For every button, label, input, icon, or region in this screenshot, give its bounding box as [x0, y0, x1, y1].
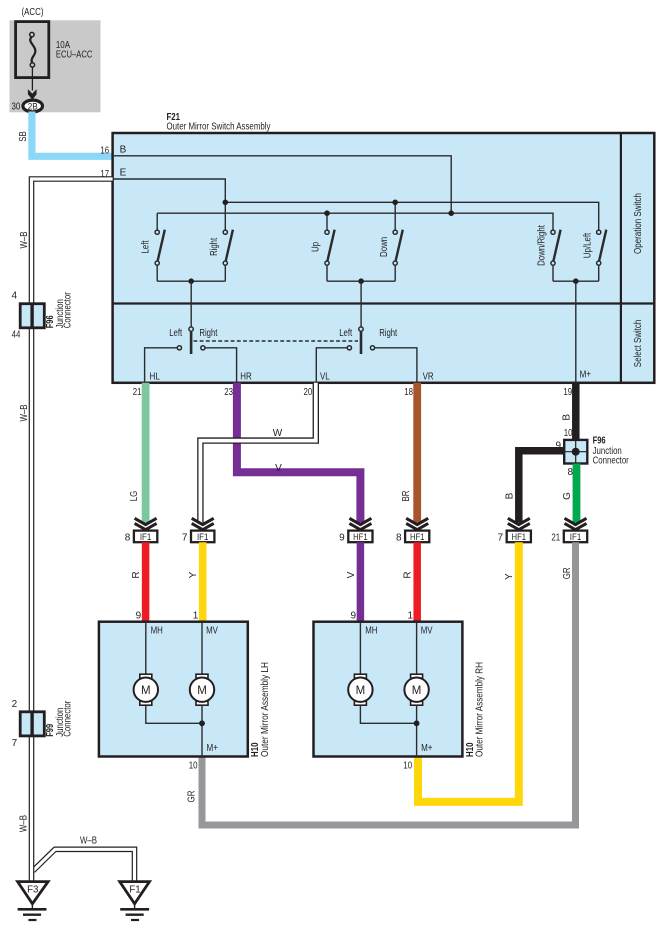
node E junction dot [223, 200, 229, 206]
connector arrow HF1-9 [349, 518, 371, 529]
label Up/Left [582, 233, 593, 259]
wire R (LH MH) [142, 542, 150, 622]
connector IF1-8 [134, 531, 157, 543]
pin 8 (F96) [568, 467, 574, 478]
svg-text:Outer Mirror Assembly LH: Outer Mirror Assembly LH [260, 662, 271, 757]
ground F3 [18, 882, 48, 920]
svg-text:1: 1 [193, 611, 199, 622]
label MV (RH) [421, 626, 433, 637]
pin 7 (IF1) [182, 532, 188, 543]
svg-text:B: B [120, 144, 127, 155]
wire to select switch 1 [190, 281, 192, 327]
label Down/Right [537, 225, 548, 266]
svg-text:2B: 2B [28, 101, 38, 112]
label Connector (F99) [63, 700, 74, 737]
svg-text:21: 21 [133, 387, 142, 398]
pin 10 (F96) [564, 428, 573, 439]
label Left [141, 240, 152, 253]
connector HF1-9 [348, 531, 372, 543]
svg-text:19: 19 [563, 387, 572, 398]
svg-text:M+: M+ [207, 743, 219, 754]
label R (RH) [403, 571, 414, 578]
switch Down/Right [551, 230, 561, 282]
outer mirror switch assembly box F21 [113, 133, 655, 383]
wire W-B branch to F1 [33, 849, 135, 881]
fuse box [16, 22, 49, 78]
svg-text:VR: VR [423, 371, 434, 382]
svg-text:Up/Left: Up/Left [582, 233, 593, 259]
label M+ (LH) [207, 743, 219, 754]
fuse block background [10, 20, 101, 112]
pin 19 [563, 387, 572, 398]
pin 9 (LH) [136, 611, 142, 622]
svg-text:7: 7 [182, 532, 188, 543]
label W-B (branch) [80, 836, 97, 847]
connector HF1-7 [507, 531, 531, 543]
label GR (IF1-21) [562, 567, 573, 579]
pin 8 (IF1) [125, 532, 131, 543]
label Left (select 2) [339, 328, 352, 339]
junction connector F96 left [20, 304, 44, 328]
pin 17 [100, 169, 109, 180]
connector HF1-8 [405, 531, 429, 543]
label Junction (F99) [55, 708, 66, 737]
svg-text:IF1: IF1 [197, 532, 209, 542]
wire B bus [113, 156, 452, 213]
wire lower bus [157, 213, 553, 230]
node B label [120, 144, 127, 155]
wire W-B main (E to ground) [32, 179, 113, 881]
wire Up switch feed [326, 213, 328, 230]
label Junction [593, 446, 622, 457]
label HR [240, 371, 252, 382]
svg-text:Y: Y [504, 573, 515, 580]
wire W (white) [200, 383, 315, 523]
wire B to HF1-7 [519, 451, 564, 523]
label F96 (left) [45, 315, 56, 328]
node Down junction dot [392, 200, 398, 206]
svg-text:V: V [275, 463, 282, 474]
svg-text:Connector: Connector [63, 700, 74, 737]
label R (LH) [131, 571, 142, 578]
wire R (RH MV) [413, 542, 421, 622]
label Junction (left F96) [55, 299, 66, 328]
wire Y (HF1-7 to RH M+) [418, 542, 519, 802]
connector arrow HF1-8 [406, 518, 428, 529]
svg-text:Left: Left [339, 328, 352, 339]
junction connector F99 [20, 712, 44, 736]
svg-text:Down/Right: Down/Right [537, 225, 548, 266]
label Right [209, 238, 220, 256]
wire HL [145, 348, 178, 383]
node pair2 dot [358, 278, 364, 284]
label W-B (middle) [19, 404, 30, 421]
label F99 [45, 723, 56, 736]
svg-text:B: B [504, 492, 515, 499]
label VR [423, 371, 434, 382]
wire VL [316, 348, 347, 383]
node M+ dot (RH) [414, 720, 420, 726]
label LG [129, 491, 140, 502]
svg-text:Operation Switch: Operation Switch [633, 193, 644, 254]
svg-text:R: R [131, 571, 142, 578]
svg-text:W–B: W–B [19, 815, 30, 832]
label F21 [167, 112, 181, 123]
label Select Switch [633, 320, 644, 367]
pin 1 (RH) [408, 611, 414, 622]
svg-text:8: 8 [125, 532, 131, 543]
pin 9 (F96) [555, 440, 561, 451]
svg-text:HF1: HF1 [512, 532, 527, 542]
svg-text:M: M [412, 685, 422, 697]
label VL [320, 371, 330, 382]
svg-text:W–B: W–B [19, 231, 30, 248]
pin 7 (HF1) [498, 532, 504, 543]
label GR (LH M+) [186, 791, 197, 803]
wire Left switch feed [156, 213, 158, 230]
svg-text:8: 8 [396, 532, 402, 543]
connector oval 2B [23, 100, 43, 112]
label ECU-ACC [56, 50, 93, 61]
pin 21 [133, 387, 142, 398]
svg-text:M: M [356, 685, 366, 697]
svg-text:BR: BR [401, 491, 412, 502]
svg-text:W: W [273, 428, 283, 439]
wire B (black, M+) [572, 383, 580, 441]
label Y (HF1-7) [504, 573, 515, 580]
svg-text:7: 7 [498, 532, 504, 543]
svg-text:Select Switch: Select Switch [633, 320, 644, 367]
label W-B (upper) [19, 231, 30, 248]
label G [562, 492, 573, 500]
label M+ [580, 370, 592, 381]
svg-text:9: 9 [136, 611, 142, 622]
node M+ dot (LH) [199, 720, 205, 726]
label BR [401, 491, 412, 502]
select switch 1 [177, 327, 205, 354]
svg-text:Left: Left [169, 328, 182, 339]
svg-text:Right: Right [209, 238, 220, 256]
label MH (RH) [365, 626, 377, 637]
svg-text:4: 4 [11, 290, 17, 301]
svg-text:Connector: Connector [593, 456, 630, 467]
arrowhead into 2B [28, 89, 37, 100]
outer mirror assembly RH box [314, 622, 463, 757]
wire fuse to 2B [31, 67, 33, 90]
node Up junction dot [324, 210, 330, 216]
label Connector [593, 456, 630, 467]
svg-text:10: 10 [564, 428, 573, 439]
label 10A [56, 40, 70, 51]
label HL [150, 371, 161, 382]
pin 7 (F99) [12, 738, 18, 749]
svg-text:10: 10 [189, 761, 198, 772]
label V [275, 463, 282, 474]
svg-text:HR: HR [240, 371, 252, 382]
node E label [120, 168, 127, 179]
svg-text:7: 7 [12, 738, 18, 749]
wire MV to motor (RH) [416, 622, 418, 675]
select switch 2 [347, 327, 374, 354]
svg-text:IF1: IF1 [140, 532, 152, 542]
wire BR (brown) [413, 383, 421, 523]
svg-text:Right: Right [379, 328, 397, 339]
wire pair bottom Left/Right [157, 280, 225, 282]
wire upper bus [225, 202, 598, 230]
svg-text:20: 20 [304, 387, 313, 398]
svg-text:18: 18 [404, 387, 413, 398]
wire V (violet) [237, 383, 361, 523]
label B (HF1-7) [504, 492, 515, 499]
wire V (RH MH) [357, 542, 365, 622]
svg-text:MV: MV [206, 626, 218, 637]
pin 10 (LH) [189, 761, 198, 772]
svg-text:M+: M+ [580, 370, 592, 381]
wire pair bottom Down/Right Up/Left [553, 280, 599, 282]
label F96 [593, 436, 606, 447]
label H10 (RH) [465, 742, 476, 757]
wire E bus [113, 179, 226, 202]
label (ACC) [22, 6, 44, 18]
svg-text:M+: M+ [421, 743, 433, 754]
label H10 (LH) [250, 742, 261, 757]
motor M vertical (LH) [190, 674, 214, 705]
svg-text:16: 16 [100, 146, 109, 157]
label Outer Mirror Assembly RH [474, 662, 485, 757]
svg-text:MH: MH [151, 626, 163, 637]
svg-text:10: 10 [403, 761, 412, 772]
label Operation Switch [633, 193, 644, 254]
motor M horizontal (LH) [134, 674, 158, 705]
wire pair bottom Up/Down [327, 280, 395, 282]
svg-text:MV: MV [421, 626, 433, 637]
svg-text:30: 30 [12, 101, 21, 112]
motor M horizontal (RH) [348, 674, 372, 705]
svg-text:SB: SB [18, 131, 29, 142]
svg-text:Outer Mirror Switch Assembly: Outer Mirror Switch Assembly [167, 122, 271, 133]
wire SB (light blue) [32, 112, 113, 157]
connector arrow IF1-8 [135, 518, 157, 529]
junction connector F96 right [564, 440, 587, 464]
ground F1 [120, 882, 150, 920]
svg-text:W–B: W–B [80, 836, 97, 847]
label W [273, 428, 283, 439]
wire GR (IF1-21 to LH M+) [202, 542, 576, 825]
wire MV motor down (LH) [201, 705, 203, 756]
svg-text:Connector: Connector [63, 292, 74, 329]
wire MV to motor (LH) [201, 622, 203, 675]
svg-text:V: V [346, 571, 357, 578]
mechanical link dashed [194, 340, 359, 342]
label Down [379, 237, 390, 257]
connector arrow HF1-7 [508, 518, 530, 529]
svg-text:E: E [120, 168, 127, 179]
wire MH to motor (LH) [145, 622, 147, 675]
wire to select switch 2 [360, 281, 362, 327]
node pair3 dot [573, 278, 579, 284]
wire G (green) [573, 464, 581, 523]
label SB [18, 131, 29, 142]
wire HR [205, 348, 237, 383]
pin 16 [100, 146, 109, 157]
label V (RH) [346, 571, 357, 578]
svg-text:B: B [561, 414, 572, 421]
pin 9 (HF1) [339, 532, 345, 543]
svg-text:W–B: W–B [19, 404, 30, 421]
svg-text:MH: MH [365, 626, 377, 637]
label Up [311, 242, 322, 252]
svg-text:HF1: HF1 [353, 532, 368, 542]
pin 4 (F96 left) [11, 290, 17, 301]
pin 10 (RH) [403, 761, 412, 772]
svg-text:G: G [562, 492, 573, 500]
svg-text:Down: Down [379, 237, 390, 257]
outer mirror assembly LH box [99, 622, 248, 757]
wire Y (LH MV) [199, 542, 207, 622]
label Outer Mirror Assembly LH [260, 662, 271, 757]
svg-text:9: 9 [339, 532, 345, 543]
switch Right [223, 230, 233, 282]
connector arrow IF1-21 [565, 518, 587, 529]
svg-text:1: 1 [408, 611, 414, 622]
pin 20 [304, 387, 313, 398]
wire MH to motor (RH) [359, 622, 361, 675]
label Right (select 2) [379, 328, 397, 339]
svg-text:44: 44 [12, 330, 21, 341]
svg-text:M: M [141, 685, 151, 697]
pin 18 [404, 387, 413, 398]
label W-B (lower) [19, 815, 30, 832]
svg-text:LG: LG [129, 491, 140, 502]
node B junction dot [448, 210, 454, 216]
wire MV motor down (RH) [416, 705, 418, 756]
svg-text:VL: VL [320, 371, 330, 382]
label MH (LH) [151, 626, 163, 637]
svg-text:GR: GR [186, 791, 197, 803]
pin 30 [12, 101, 21, 112]
switch Up [325, 230, 335, 282]
svg-text:HL: HL [150, 371, 161, 382]
svg-text:Right: Right [199, 328, 217, 339]
motor M vertical (RH) [404, 674, 428, 705]
label M+ (RH) [421, 743, 433, 754]
label Y (LH) [188, 571, 199, 578]
connector arrow IF1-7 [192, 518, 214, 529]
connector IF1-21 [564, 531, 587, 543]
label Left (select 1) [169, 328, 182, 339]
switch Up/Left [597, 230, 607, 282]
svg-text:Outer Mirror Assembly RH: Outer Mirror Assembly RH [474, 662, 485, 757]
label Connector (left F96) [63, 292, 74, 329]
svg-text:IF1: IF1 [570, 532, 582, 542]
svg-text:9: 9 [350, 611, 356, 622]
svg-text:Y: Y [188, 571, 199, 578]
svg-text:Up: Up [311, 242, 322, 252]
wire motors to M+ (RH) [360, 705, 416, 723]
svg-text:ECU–ACC: ECU–ACC [56, 50, 93, 61]
svg-text:R: R [403, 571, 414, 578]
switch Down [393, 230, 403, 282]
pin 23 [224, 387, 233, 398]
label B [561, 414, 572, 421]
pin 2 (F99) [12, 699, 18, 710]
svg-text:M: M [197, 685, 207, 697]
pin 44 (F96 left) [12, 330, 21, 341]
pin 8 (HF1) [396, 532, 402, 543]
label Outer Mirror Switch Assembly [167, 122, 271, 133]
wire Down switch feed [394, 202, 396, 230]
svg-text:23: 23 [224, 387, 233, 398]
wire motors to M+ (LH) [146, 705, 202, 723]
fuse element 10A [30, 32, 36, 67]
wire M+ [575, 281, 577, 383]
svg-text:F1: F1 [129, 884, 140, 895]
svg-text:Left: Left [141, 240, 152, 253]
wire VR [375, 348, 417, 383]
node pair1 dot [188, 278, 194, 284]
pin 21 (IF1) [551, 532, 560, 543]
label MV (LH) [206, 626, 218, 637]
connector IF1-7 [191, 531, 214, 543]
switch Left [155, 230, 165, 282]
wire Right switch feed [224, 202, 226, 230]
svg-text:(ACC): (ACC) [22, 6, 44, 18]
svg-text:21: 21 [551, 532, 560, 543]
svg-text:F3: F3 [27, 884, 38, 895]
svg-text:GR: GR [562, 567, 573, 579]
svg-text:HF1: HF1 [410, 532, 425, 542]
wire LG (light green) [142, 383, 150, 523]
label Right (select 1) [199, 328, 217, 339]
svg-text:2: 2 [12, 699, 18, 710]
pin 9 (RH) [350, 611, 356, 622]
pin 1 (LH) [193, 611, 199, 622]
